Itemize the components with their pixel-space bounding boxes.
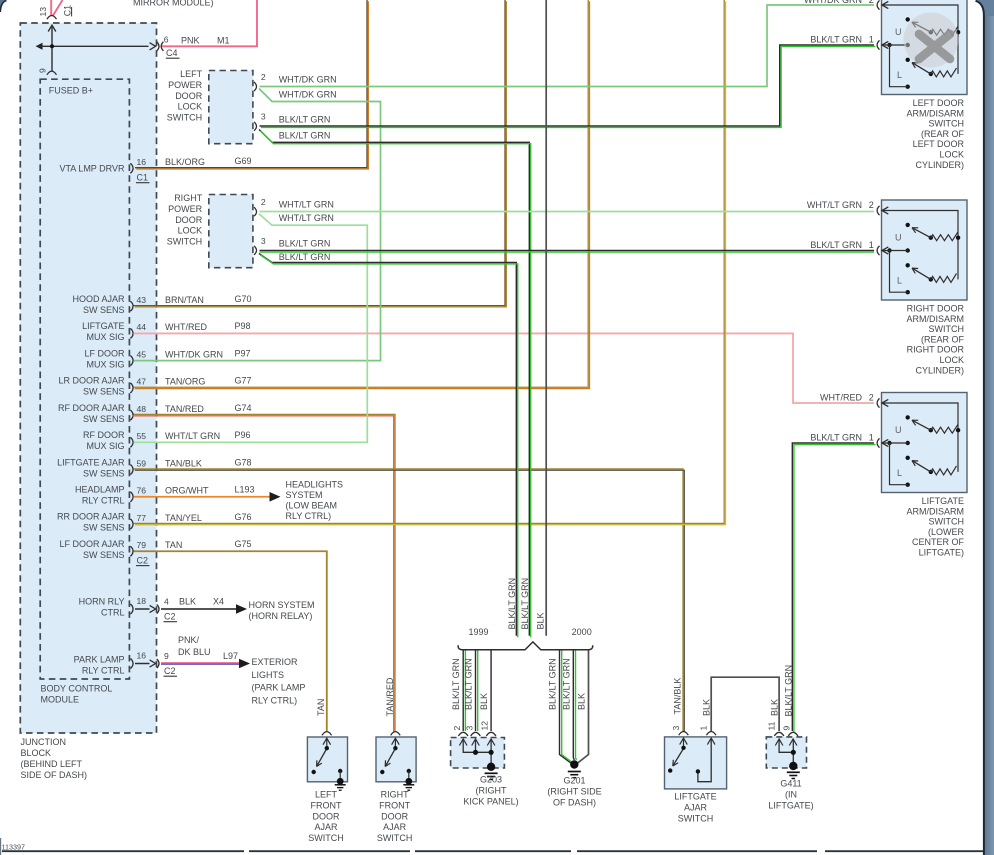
svg-text:BLK/ORG: BLK/ORG	[165, 157, 205, 167]
BCM pin 18 horn rly ctrl	[79, 596, 224, 622]
svg-text:L: L	[897, 70, 902, 80]
svg-text:TAN/ORG: TAN/ORG	[165, 377, 205, 387]
svg-text:RLY CTRL): RLY CTRL)	[252, 695, 298, 705]
svg-text:16: 16	[137, 650, 147, 660]
wire BLK X4 to horn system	[161, 604, 247, 614]
svg-text:2: 2	[452, 726, 462, 731]
svg-text:CYLINDER): CYLINDER)	[915, 365, 964, 375]
svg-text:C1: C1	[62, 5, 72, 16]
liftgate arm/disarm label	[906, 496, 964, 558]
label BLK/LT GRN 1999-2	[464, 658, 474, 710]
wire BLK/LT GRN (liftgate arm/disarm pin1 to G411 pin 9)	[792, 443, 875, 733]
svg-text:LIFTGATE: LIFTGATE	[922, 496, 964, 506]
svg-text:BLK/LT GRN: BLK/LT GRN	[783, 665, 793, 717]
svg-text:PARK LAMP: PARK LAMP	[74, 655, 125, 665]
wire BLK from top to ground bundle	[545, 0, 547, 636]
svg-text:M1: M1	[217, 36, 230, 46]
svg-text:2: 2	[869, 200, 874, 210]
svg-text:BLK/LT GRN: BLK/LT GRN	[810, 433, 862, 443]
svg-text:LOCK: LOCK	[178, 102, 203, 112]
svg-text:(HORN RELAY): (HORN RELAY)	[249, 611, 313, 621]
svg-text:DK BLU: DK BLU	[178, 647, 211, 657]
connector pin 9 to FUSED B+	[38, 68, 57, 75]
svg-text:TAN/RED: TAN/RED	[385, 677, 395, 716]
svg-text:DOOR: DOOR	[381, 811, 409, 821]
svg-text:WHT/LT GRN: WHT/LT GRN	[165, 431, 220, 441]
BCM pin 79 LF door ajar	[59, 539, 251, 566]
svg-text:FRONT: FRONT	[379, 800, 410, 810]
svg-text:76: 76	[137, 486, 147, 496]
BCM pin 45 LF door mux	[84, 348, 250, 369]
bottom separator line	[2, 850, 244, 852]
svg-text:LR DOOR AJAR: LR DOOR AJAR	[58, 376, 125, 386]
svg-text:DOOR: DOOR	[175, 215, 203, 225]
svg-text:RLY CTRL: RLY CTRL	[82, 495, 125, 505]
label BLK/LT GRN 2000-2	[561, 658, 571, 710]
left door arm/disarm switch	[877, 0, 967, 95]
label BLK/LT GRN bundle upper 1	[507, 578, 517, 630]
svg-text:2: 2	[261, 197, 266, 207]
mirror module label (cut)	[133, 0, 214, 7]
right arm/disarm pin labels	[807, 200, 874, 250]
svg-text:MUX SIG: MUX SIG	[86, 332, 124, 342]
svg-text:1: 1	[869, 433, 874, 443]
svg-text:PNK/: PNK/	[178, 635, 200, 645]
svg-text:WHT/DK GRN: WHT/DK GRN	[279, 75, 337, 85]
FUSED B+ label	[49, 86, 93, 96]
svg-text:WHT/LT GRN: WHT/LT GRN	[807, 200, 862, 210]
page top-left corner	[0, 0, 7, 12]
svg-text:3: 3	[261, 112, 266, 122]
svg-text:CENTER OF: CENTER OF	[912, 537, 965, 547]
svg-text:EXTERIOR: EXTERIOR	[252, 657, 299, 667]
svg-text:BLK/LT GRN: BLK/LT GRN	[279, 130, 331, 140]
wire TAN/YEL G76	[134, 0, 726, 525]
svg-text:3: 3	[671, 726, 681, 731]
svg-text:2: 2	[261, 72, 266, 82]
svg-text:SW SENS: SW SENS	[83, 414, 125, 424]
svg-text:LOCK: LOCK	[178, 226, 203, 236]
svg-text:TAN/RED: TAN/RED	[165, 404, 204, 414]
wire BLK/LT GRN 1999 pin3	[476, 651, 478, 732]
internal bus arrows in junction block	[36, 25, 149, 71]
svg-text:FUSED B+: FUSED B+	[49, 86, 93, 96]
svg-text:(REAR OF: (REAR OF	[921, 129, 965, 139]
svg-text:SIDE OF DASH): SIDE OF DASH)	[21, 770, 88, 780]
label BLK 2000	[577, 693, 587, 710]
wire BLK/ORG G69	[135, 0, 368, 169]
BCM pin 77 RR door ajar	[57, 512, 252, 533]
wire BLK/LT GRN 1999 pin2	[463, 651, 465, 732]
svg-text:LIFTGATE: LIFTGATE	[674, 792, 716, 802]
svg-text:RLY CTRL: RLY CTRL	[82, 666, 125, 676]
right pdl label	[167, 193, 203, 246]
wire BLK/LT GRN (left pdl pin3 to ground bundle)	[259, 130, 531, 638]
svg-text:1: 1	[869, 35, 874, 45]
svg-text:SW SENS: SW SENS	[83, 305, 125, 315]
left arm/disarm label	[906, 98, 964, 170]
svg-text:BLK/LT GRN: BLK/LT GRN	[279, 252, 331, 262]
svg-text:ARM/DISARM: ARM/DISARM	[906, 314, 964, 324]
svg-text:SWITCH: SWITCH	[929, 517, 965, 527]
svg-text:BLK/LT GRN: BLK/LT GRN	[520, 578, 530, 630]
svg-text:11: 11	[767, 721, 777, 730]
year 1999	[468, 627, 488, 637]
svg-text:79: 79	[137, 540, 147, 550]
svg-text:POWER: POWER	[168, 204, 203, 214]
svg-text:L: L	[897, 276, 902, 286]
svg-text:1: 1	[699, 726, 709, 731]
svg-text:SWITCH: SWITCH	[929, 324, 965, 334]
svg-text:BODY CONTROL: BODY CONTROL	[41, 684, 113, 694]
svg-text:CTRL: CTRL	[101, 608, 125, 618]
svg-text:TAN: TAN	[316, 699, 326, 716]
svg-text:WHT/DK GRN: WHT/DK GRN	[804, 0, 862, 5]
svg-text:SWITCH: SWITCH	[377, 833, 413, 843]
svg-text:ARM/DISARM: ARM/DISARM	[906, 108, 964, 118]
label BLK G411 pin11 (vertical)	[770, 699, 780, 716]
connector pin 13 C1	[38, 5, 73, 19]
right front door ajar label	[377, 790, 413, 844]
svg-text:C2: C2	[137, 555, 149, 565]
pin 2 label G203	[452, 726, 462, 731]
label BLK bundle upper	[536, 612, 546, 629]
wire TAN/RED G74 to right front door ajar switch	[132, 414, 395, 732]
svg-text:CYLINDER): CYLINDER)	[915, 160, 964, 170]
left front door ajar label	[308, 790, 344, 844]
svg-text:BLK: BLK	[536, 612, 546, 629]
svg-text:MODULE: MODULE	[41, 695, 80, 705]
svg-text:BLK: BLK	[179, 597, 196, 607]
body control module box (FUSED B+)	[40, 79, 129, 679]
svg-text:BLK: BLK	[479, 693, 489, 710]
svg-text:9: 9	[38, 68, 48, 73]
svg-text:RIGHT: RIGHT	[174, 193, 203, 203]
svg-text:BLK: BLK	[702, 699, 712, 716]
wire BLK 2000	[577, 651, 589, 764]
G201 label	[547, 776, 601, 808]
svg-text:HOOD AJAR: HOOD AJAR	[72, 294, 125, 304]
svg-text:RIGHT DOOR: RIGHT DOOR	[907, 345, 965, 355]
wire TAN/ORG G77	[134, 0, 590, 389]
svg-text:SYSTEM: SYSTEM	[286, 490, 323, 500]
svg-text:MUX SIG: MUX SIG	[86, 359, 124, 369]
svg-text:LIFTGATE: LIFTGATE	[82, 321, 124, 331]
svg-text:BLOCK: BLOCK	[21, 748, 52, 758]
svg-text:45: 45	[137, 349, 147, 359]
svg-text:59: 59	[137, 458, 147, 468]
svg-text:U: U	[895, 425, 902, 435]
G203 label	[463, 775, 518, 807]
BCM pin 16 park lamp rly ctrl	[74, 635, 238, 676]
svg-text:1999: 1999	[468, 627, 488, 637]
svg-text:WHT/RED: WHT/RED	[165, 322, 207, 332]
svg-text:3: 3	[261, 236, 266, 246]
svg-text:3: 3	[464, 726, 474, 731]
svg-text:TAN: TAN	[165, 540, 182, 550]
svg-text:WHT/LT GRN: WHT/LT GRN	[279, 213, 334, 223]
svg-text:L: L	[897, 468, 902, 478]
body control module label	[41, 684, 113, 705]
svg-text:LF DOOR: LF DOOR	[84, 348, 125, 358]
exterior lights label	[252, 657, 306, 705]
svg-text:(RIGHT: (RIGHT	[476, 786, 507, 796]
svg-text:P97: P97	[235, 348, 251, 358]
svg-text:(RIGHT SIDE: (RIGHT SIDE	[547, 787, 601, 797]
svg-text:4: 4	[164, 597, 169, 607]
label TAN (vertical)	[316, 699, 326, 716]
svg-text:LEFT DOOR: LEFT DOOR	[913, 98, 965, 108]
svg-text:BLK: BLK	[770, 699, 780, 716]
wire ORG/WHT L193 to headlights	[134, 492, 281, 502]
svg-text:16: 16	[137, 157, 147, 167]
svg-text:48: 48	[137, 404, 147, 414]
svg-text:LEFT: LEFT	[180, 69, 203, 79]
svg-text:L97: L97	[223, 651, 238, 661]
G411 label	[768, 779, 813, 811]
svg-text:BLK/LT GRN: BLK/LT GRN	[464, 658, 474, 710]
svg-text:(LOWER: (LOWER	[928, 527, 965, 537]
svg-text:BLK/LT GRN: BLK/LT GRN	[507, 578, 517, 630]
svg-text:WHT/LT GRN: WHT/LT GRN	[279, 200, 334, 210]
svg-text:HORN RLY: HORN RLY	[79, 597, 125, 607]
left power door lock switch	[209, 71, 253, 144]
wire BLK/LT GRN 2000 a	[560, 651, 574, 764]
svg-text:SWITCH: SWITCH	[167, 112, 203, 122]
wire WHT/RED P98 to liftgate arm/disarm pin 2	[134, 333, 875, 403]
svg-text:SW SENS: SW SENS	[83, 550, 125, 560]
svg-text:RR DOOR AJAR: RR DOOR AJAR	[57, 512, 125, 522]
svg-text:G74: G74	[235, 403, 252, 413]
label BLK liftgate loop (vertical)	[702, 699, 712, 716]
G203 ground splice box	[451, 738, 505, 769]
wire BLK 1999 pin12	[490, 651, 492, 732]
page right edge backdrop	[976, 0, 994, 855]
svg-text:LIGHTS: LIGHTS	[252, 670, 285, 680]
svg-text:SWITCH: SWITCH	[929, 119, 965, 129]
headlights system label	[286, 479, 344, 521]
svg-text:DOOR: DOOR	[313, 811, 341, 821]
svg-text:X4: X4	[213, 597, 224, 607]
svg-text:PNK: PNK	[181, 36, 200, 46]
BCM pin 48 RF door ajar	[58, 403, 252, 424]
svg-text:RF DOOR AJAR: RF DOOR AJAR	[58, 403, 125, 413]
svg-text:BLK/LT GRN: BLK/LT GRN	[548, 658, 558, 710]
right front door ajar switch	[376, 732, 416, 791]
svg-text:BLK/LT GRN: BLK/LT GRN	[451, 658, 461, 710]
label BLK/LT GRN G411 pin9 (vertical)	[783, 665, 793, 717]
svg-text:HEADLAMP: HEADLAMP	[75, 484, 125, 494]
wire TAN G75 to left front door ajar switch	[134, 551, 327, 731]
bottom-left page edge	[0, 838, 2, 855]
svg-text:2: 2	[869, 393, 874, 403]
svg-text:47: 47	[137, 377, 147, 387]
svg-text:HORN SYSTEM: HORN SYSTEM	[249, 600, 315, 610]
year 2000	[572, 627, 592, 637]
liftgate ajar label	[674, 792, 716, 824]
svg-text:RIGHT DOOR: RIGHT DOOR	[907, 304, 965, 314]
svg-text:ARM/DISARM: ARM/DISARM	[906, 506, 964, 516]
svg-text:RF DOOR: RF DOOR	[83, 430, 125, 440]
svg-text:L193: L193	[235, 485, 255, 495]
junction block label	[21, 737, 88, 780]
svg-text:JUNCTION: JUNCTION	[21, 737, 67, 747]
svg-text:77: 77	[137, 513, 147, 523]
wire PNK/DK BLU to exterior lights	[161, 659, 250, 669]
G411 internal	[775, 739, 800, 779]
svg-text:G78: G78	[235, 457, 252, 467]
svg-text:SW SENS: SW SENS	[83, 468, 125, 478]
svg-text:SWITCH: SWITCH	[167, 236, 203, 246]
label BLK 1999	[479, 693, 489, 710]
svg-text:9: 9	[781, 726, 791, 731]
liftgate ajar switch	[665, 732, 727, 789]
svg-text:(BEHIND LEFT: (BEHIND LEFT	[21, 759, 83, 769]
bundle split brace	[458, 642, 593, 650]
liftgate arm/disarm pin labels	[810, 393, 874, 443]
label BLK/LT GRN 2000-1	[548, 658, 558, 710]
svg-text:TAN/BLK: TAN/BLK	[673, 678, 683, 715]
svg-text:WHT/RED: WHT/RED	[820, 393, 862, 403]
junction block (behind left side of dash)	[20, 23, 156, 733]
wire PNK M1	[162, 0, 257, 46]
svg-text:AJAR: AJAR	[383, 822, 407, 832]
right arm/disarm label	[906, 304, 964, 376]
svg-text:55: 55	[137, 431, 147, 441]
liftgate ajar pin numbers	[671, 726, 709, 731]
svg-text:C2: C2	[164, 612, 176, 622]
BCM pin 76 headlamp rly	[75, 484, 255, 505]
svg-text:P96: P96	[235, 430, 251, 440]
svg-text:G411: G411	[780, 779, 801, 789]
wire PNK from mirror module (top)	[51, 0, 62, 16]
label BLK/LT GRN bundle upper 2	[520, 578, 530, 630]
label TAN/RED (vertical)	[385, 677, 395, 716]
BCM pin 16 VTA LMP DRVR	[59, 156, 251, 183]
svg-text:13: 13	[38, 7, 48, 17]
right pdl pin 2	[254, 197, 334, 223]
svg-text:LF DOOR AJAR: LF DOOR AJAR	[59, 539, 125, 549]
right pdl pin 3	[254, 236, 330, 262]
svg-text:44: 44	[137, 322, 147, 332]
svg-text:(IN: (IN	[785, 790, 797, 800]
label TAN/BLK (vertical)	[673, 678, 683, 715]
wire BLK (liftgate ajar pin1 to G411 pin11)	[711, 677, 779, 731]
svg-text:VTA LMP DRVR: VTA LMP DRVR	[59, 164, 125, 174]
G411 pin numbers	[767, 721, 792, 730]
svg-text:U: U	[895, 233, 902, 243]
svg-text:DOOR: DOOR	[175, 91, 203, 101]
left pdl label	[167, 69, 203, 122]
svg-text:2: 2	[869, 0, 874, 5]
svg-text:G69: G69	[235, 156, 252, 166]
svg-text:MUX SIG: MUX SIG	[86, 441, 124, 451]
svg-text:BLK/LT GRN: BLK/LT GRN	[279, 114, 331, 124]
left front door ajar switch	[307, 732, 347, 791]
BCM pin 44 liftgate mux	[82, 321, 250, 342]
svg-text:(LOW BEAM: (LOW BEAM	[286, 500, 338, 510]
svg-text:SW SENS: SW SENS	[83, 387, 125, 397]
svg-text:WHT/DK GRN: WHT/DK GRN	[279, 90, 337, 100]
wire TAN/BLK G78 to liftgate ajar switch pin 3	[134, 469, 685, 732]
connector pin 6 C4 at box edge	[150, 35, 230, 59]
svg-text:LEFT DOOR: LEFT DOOR	[913, 139, 965, 149]
svg-text:FRONT: FRONT	[311, 800, 342, 810]
svg-text:113397: 113397	[2, 843, 25, 852]
wire WHT/DK GRN P97 (pin45 to left door lock switch)	[134, 89, 381, 361]
svg-text:BRN/TAN: BRN/TAN	[165, 295, 204, 305]
svg-text:TAN/YEL: TAN/YEL	[165, 513, 202, 523]
svg-text:LOCK: LOCK	[939, 355, 964, 365]
G203 internal	[459, 739, 497, 780]
svg-text:C2: C2	[164, 666, 176, 676]
horn system label	[249, 600, 315, 621]
svg-text:43: 43	[137, 295, 147, 305]
svg-text:LIFTGATE AJAR: LIFTGATE AJAR	[57, 457, 125, 467]
svg-text:KICK PANEL): KICK PANEL)	[463, 797, 518, 807]
svg-text:POWER: POWER	[168, 80, 203, 90]
left pdl pin 3	[254, 112, 330, 141]
svg-text:BLK/LT GRN: BLK/LT GRN	[810, 35, 862, 45]
G411 ground splice box	[766, 737, 806, 768]
svg-text:HEADLIGHTS: HEADLIGHTS	[286, 479, 344, 489]
wire WHT/LT GRN (right pdl pin2 to right arm/disarm pin2)	[260, 211, 875, 213]
svg-text:LIFTGATE): LIFTGATE)	[919, 548, 964, 558]
svg-text:G201: G201	[563, 776, 585, 786]
G411 pin caps	[774, 732, 798, 736]
svg-text:(REAR OF: (REAR OF	[921, 334, 965, 344]
wire BLK/LT GRN 2000 b	[573, 651, 576, 761]
BCM pin 59 liftgate ajar	[57, 457, 251, 478]
BCM pin 47 LR door ajar	[58, 376, 251, 397]
liftgate arm/disarm switch	[877, 393, 967, 493]
svg-text:SWITCH: SWITCH	[308, 833, 344, 843]
svg-text:(PARK LAMP: (PARK LAMP	[252, 683, 306, 693]
svg-text:G76: G76	[235, 512, 252, 522]
BCM pin 43 hood ajar	[72, 294, 251, 315]
svg-text:6: 6	[164, 35, 169, 45]
svg-text:BLK: BLK	[577, 693, 587, 710]
svg-text:1: 1	[869, 240, 874, 250]
pin 3 label G203	[464, 726, 474, 731]
wire BLK/LT GRN (left pdl pin3 to left arm/disarm pin1)	[260, 45, 876, 127]
svg-text:MIRROR MODULE): MIRROR MODULE)	[133, 0, 214, 7]
BCM pin 55 RF door mux	[83, 430, 251, 451]
svg-text:LIFTGATE): LIFTGATE)	[768, 801, 813, 811]
X watermark overlay	[904, 13, 959, 68]
svg-text:G203: G203	[480, 775, 502, 785]
svg-text:LEFT: LEFT	[315, 790, 338, 800]
svg-text:ORG/WHT: ORG/WHT	[165, 486, 209, 496]
wire BLK/LT GRN (right pdl pin3 to right arm/disarm pin1)	[260, 250, 875, 252]
svg-text:BLK/LT GRN: BLK/LT GRN	[810, 240, 862, 250]
label BLK/LT GRN 1999-1	[451, 658, 461, 710]
left pdl pin 2	[254, 72, 337, 100]
svg-text:RLY CTRL): RLY CTRL)	[286, 511, 332, 521]
svg-text:G77: G77	[235, 376, 252, 386]
pin 12 label G203	[480, 721, 490, 731]
G203 pin caps	[458, 732, 496, 736]
wire BLK/LT GRN (right pdl pin3 to ground bundle)	[259, 254, 518, 638]
svg-text:U: U	[895, 27, 902, 37]
svg-text:AJAR: AJAR	[314, 822, 338, 832]
svg-text:C1: C1	[137, 173, 149, 183]
svg-text:SWITCH: SWITCH	[678, 814, 714, 824]
svg-text:G75: G75	[235, 539, 252, 549]
wire WHT/DK GRN (left pdl pin2 to left arm/disarm pin2)	[260, 5, 875, 87]
wire BRN/TAN G70	[134, 0, 507, 307]
left arm/disarm pin labels	[804, 0, 874, 45]
